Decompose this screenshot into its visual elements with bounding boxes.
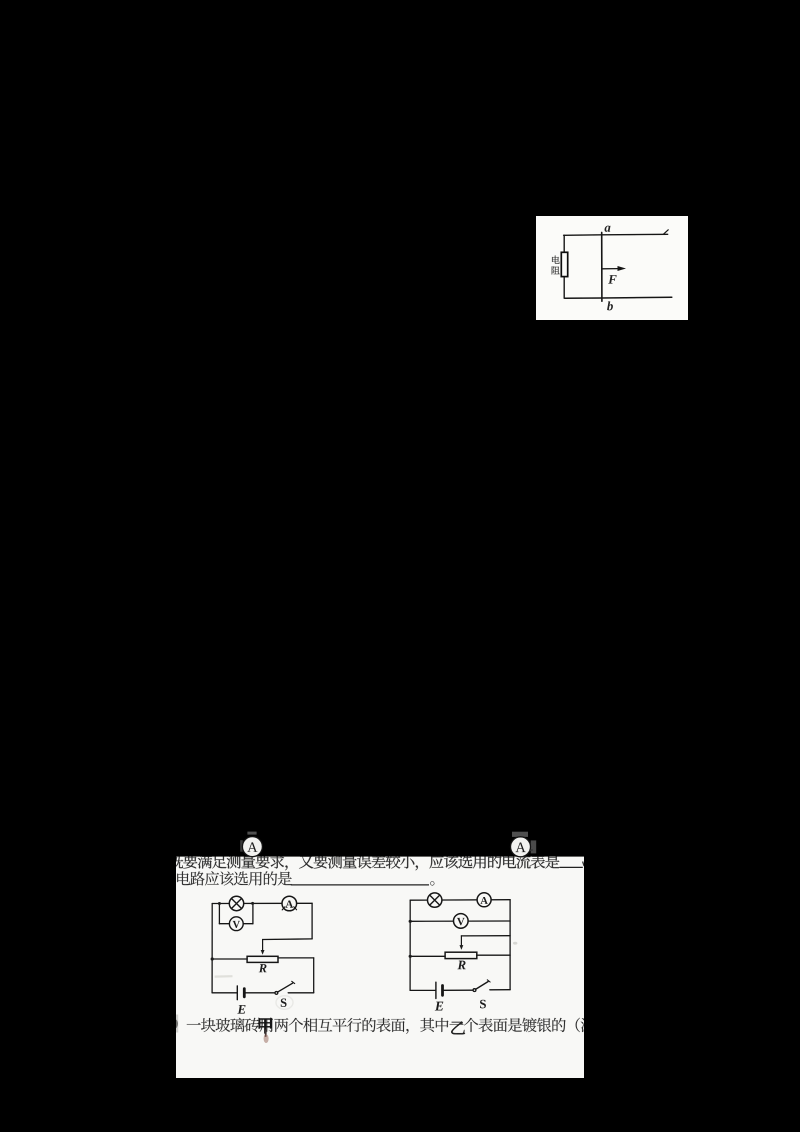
wire right vertical <box>509 900 511 990</box>
R label <box>259 964 267 972</box>
faint scan smudge left circuit <box>215 975 233 978</box>
wire jog to slider <box>263 938 313 941</box>
wire V stub right <box>252 903 254 923</box>
wire mid row right <box>278 957 314 959</box>
wire voltmeter row <box>410 920 510 922</box>
R label <box>457 961 465 970</box>
switch S pivot and blade <box>275 992 278 995</box>
cut-off item number blob at left edge <box>171 1019 178 1029</box>
wire bottom row <box>410 989 436 991</box>
S label <box>480 1000 486 1009</box>
smudges above ammeter badge A2 <box>512 832 528 837</box>
wire: top horizontal rail-to-right-edge <box>564 234 668 235</box>
wire right vertical lower <box>313 958 315 993</box>
voltmeter V <box>229 917 243 931</box>
wire: left vertical upper <box>563 235 565 253</box>
lamp (circle with X) <box>229 896 243 910</box>
wire left vertical <box>211 904 213 993</box>
ammeter badge A2 <box>511 837 531 857</box>
wire V stub left <box>218 904 220 924</box>
wire top row <box>212 902 312 904</box>
wire mid row left <box>410 955 445 957</box>
resistor label 电阻 <box>552 256 560 264</box>
faint scan smudge right circuit <box>513 942 517 945</box>
rheostat R body <box>247 956 278 962</box>
wire slider row <box>461 935 510 937</box>
wire mid row right <box>477 954 510 956</box>
S label with halo smudge <box>276 996 293 1010</box>
wire right vertical upper <box>311 903 313 939</box>
battery E plates <box>236 986 238 1000</box>
rheostat slider arrow <box>262 940 264 951</box>
wire: bottom horizontal <box>565 296 672 299</box>
text line 2 <box>177 871 190 885</box>
wire bottom row <box>212 992 237 994</box>
rheostat R body <box>445 952 477 958</box>
resistor body <box>561 252 567 276</box>
lamp (circle with X) <box>428 893 442 907</box>
smudges above ammeter badge A1 <box>247 832 256 835</box>
wire V row <box>219 923 253 925</box>
figure panel (white) <box>536 216 688 320</box>
wire: tick at right end of top wire <box>663 230 668 235</box>
wire top row <box>410 899 510 902</box>
node a label <box>605 226 611 232</box>
handwritten 乙 overlay <box>451 1021 465 1034</box>
force arrow F <box>603 268 619 270</box>
switch S pivot and blade <box>473 989 476 992</box>
conductor rail ab (vertical) <box>601 232 603 301</box>
ammeter badge A1 <box>242 837 262 857</box>
text line 1 <box>169 854 183 868</box>
F label <box>608 275 616 284</box>
ammeter A <box>477 893 491 907</box>
rheostat slider arrow <box>460 936 462 946</box>
E label <box>237 1005 245 1014</box>
E label <box>435 1002 443 1011</box>
wire: left vertical lower <box>563 276 565 298</box>
battery E plates <box>435 982 437 998</box>
junction nodes on top row <box>218 902 221 905</box>
bottom text line <box>187 1023 201 1025</box>
blank underline line1 <box>560 866 583 868</box>
blank underline line2 <box>291 884 429 886</box>
wire mid row left <box>212 958 247 960</box>
handwritten 甲 overlay <box>259 1018 272 1033</box>
node b label <box>607 301 613 310</box>
wire left vertical <box>409 900 411 990</box>
voltmeter V <box>454 914 469 929</box>
ammeter A <box>282 896 297 911</box>
